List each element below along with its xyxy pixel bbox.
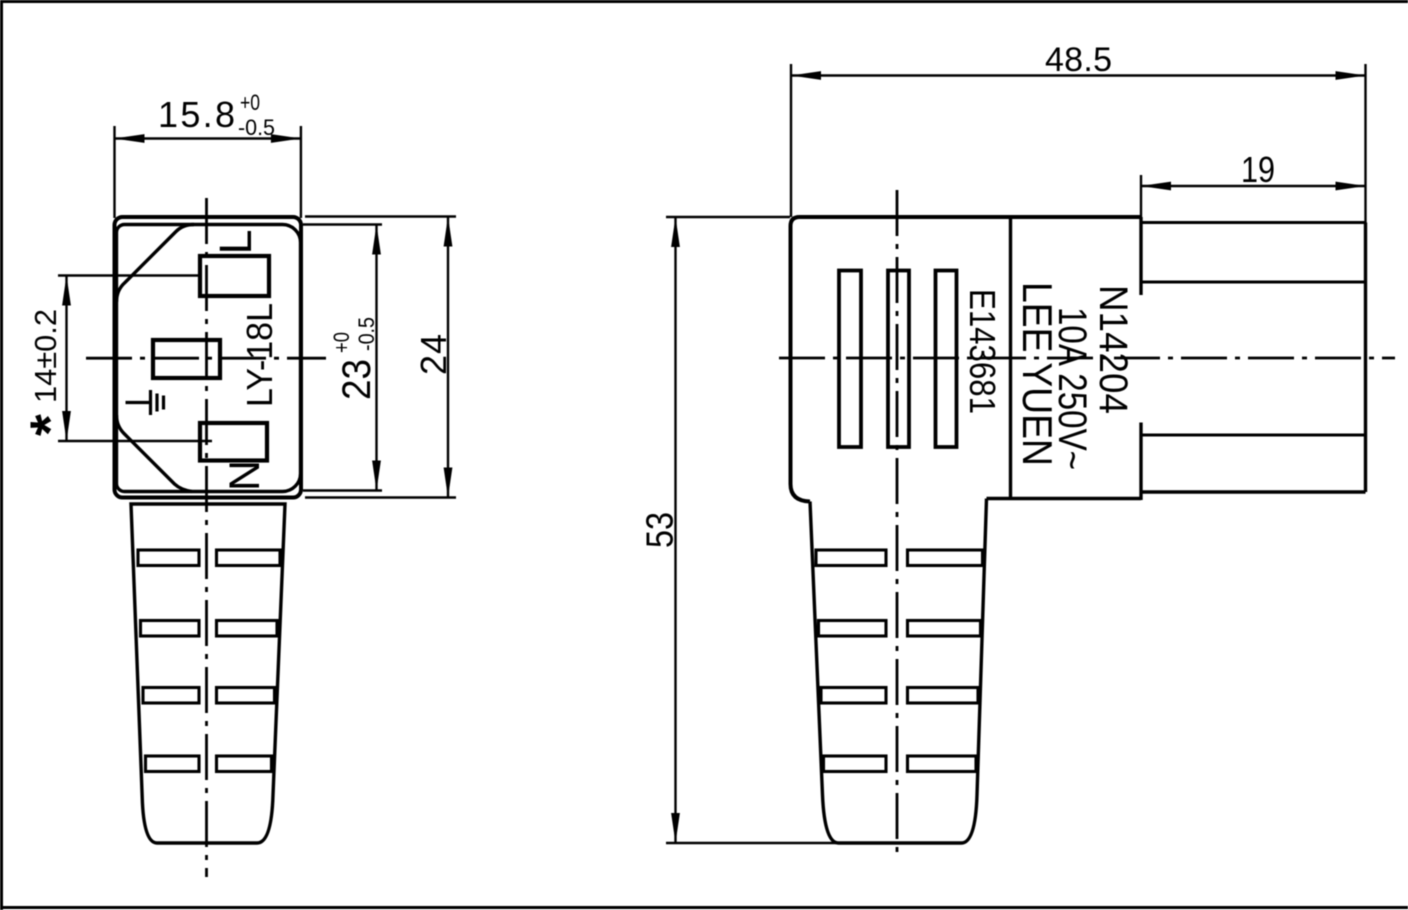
svg-text:-0.5: -0.5: [238, 115, 275, 140]
svg-text:N14204: N14204: [1091, 285, 1135, 414]
boot rib row 3 left: [143, 688, 199, 704]
boot rib row 2 left: [141, 621, 200, 637]
boot rib row 2 right: [217, 621, 278, 637]
vent slot 2: [888, 271, 909, 448]
svg-text:E143681: E143681: [962, 289, 1003, 414]
dimension 24: [305, 217, 456, 498]
svg-text:L: L: [210, 229, 261, 254]
svg-text:53: 53: [640, 512, 682, 548]
boot rib row 1 left: [138, 550, 199, 566]
svg-text:23: 23: [335, 359, 379, 400]
side view main body outline: [791, 217, 1142, 502]
svg-text:48.5: 48.5: [1045, 41, 1112, 79]
front view vertical centerline: [205, 198, 208, 877]
marking N14204: [1091, 285, 1135, 414]
vent slot 3: [936, 271, 957, 448]
side view vertical centerline: [896, 190, 899, 858]
side view horizontal centerline: [779, 357, 1395, 360]
svg-text:+0: +0: [329, 332, 354, 353]
vent slot 1: [839, 271, 861, 448]
snout upper lip line: [1141, 280, 1366, 283]
dimension 48.5: [791, 64, 1366, 223]
snout left wall upper: [1139, 217, 1142, 295]
front view outer body: [115, 217, 302, 498]
snout top edge: [1141, 221, 1366, 224]
snout left wall lower: [1139, 423, 1142, 501]
side boot rib row 4 right: [908, 756, 977, 772]
dimension 53: [666, 217, 836, 843]
dimension *14±0.2: [58, 276, 212, 442]
marking LEE YUEN: [1014, 282, 1061, 466]
boot rib row 1 right: [217, 550, 281, 566]
svg-text:*: *: [18, 414, 81, 436]
side boot rib row 2 left: [819, 621, 887, 637]
front view cable boot: [131, 504, 285, 843]
svg-text:+0: +0: [240, 90, 260, 115]
svg-text:15.8: 15.8: [158, 94, 235, 135]
side boot rib row 3 right: [908, 688, 979, 704]
svg-text:24: 24: [413, 334, 454, 375]
marking LY-18L: [239, 303, 280, 407]
svg-text:14±0.2: 14±0.2: [28, 309, 63, 403]
side boot rib row 3 left: [821, 688, 886, 704]
side boot rib row 1 right: [908, 550, 983, 566]
front view face plate outline: [117, 225, 301, 492]
svg-text:10A 250V~: 10A 250V~: [1050, 307, 1094, 470]
boot rib row 4 left: [146, 756, 200, 772]
pin N: [200, 423, 267, 461]
dimension 23 +0/-0.5: [303, 225, 382, 491]
face bottom-left chamfer: [117, 415, 193, 492]
division line body/rear: [1009, 217, 1012, 499]
label N: [221, 460, 269, 491]
earth ground symbol: [126, 390, 164, 415]
marking E143681: [962, 289, 1003, 414]
snout right edge: [1364, 223, 1367, 493]
side boot rib row 4 left: [824, 756, 887, 772]
boot rib row 3 right: [217, 688, 275, 704]
dimension 15.8 +0/-0.5: [115, 126, 301, 218]
front view horizontal centerline: [86, 357, 326, 360]
side boot rib row 2 right: [908, 621, 981, 637]
label L: [210, 229, 261, 254]
snout bottom edge: [1141, 490, 1366, 493]
boot rib row 4 right: [217, 756, 272, 772]
svg-text:N: N: [221, 460, 269, 491]
svg-text:-0.5: -0.5: [354, 317, 379, 351]
svg-text:LY-18L: LY-18L: [239, 303, 280, 407]
rear section bottom edge: [987, 497, 1142, 500]
svg-text:19: 19: [1241, 149, 1275, 190]
face top-left chamfer: [117, 225, 195, 303]
side boot rib row 1 left: [816, 550, 886, 566]
pin L: [200, 256, 269, 296]
pin earth (middle): [153, 340, 220, 378]
snout lower lip line: [1141, 433, 1366, 436]
side view cable boot: [810, 499, 987, 844]
marking 10A 250V~: [1050, 307, 1094, 470]
dimension 19: [1141, 175, 1366, 217]
